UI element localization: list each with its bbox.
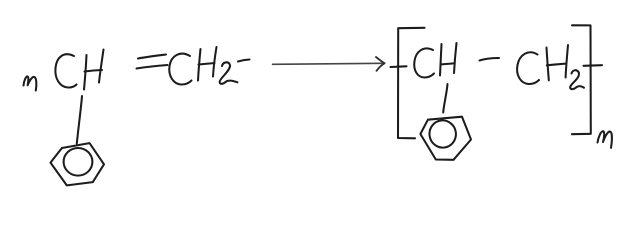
double bond = [137, 55, 168, 69]
subscript 2 of left CH2 [220, 62, 238, 83]
benzene inner circle (right) [428, 119, 458, 150]
bond dash between CH and CH2 [480, 58, 500, 61]
bond dash after CH2 [238, 60, 250, 62]
left bracket of repeat unit [398, 28, 425, 139]
atom C of left CH [55, 54, 76, 87]
atom C of left =CH2 [169, 54, 191, 85]
bond dash through left bracket [391, 65, 407, 68]
bond dash through right bracket [584, 64, 603, 67]
benzene hexagon (right) [420, 117, 471, 160]
right bracket of repeat unit [572, 25, 591, 134]
subscript n (right) [598, 131, 612, 148]
benzene hexagon (left) [51, 143, 105, 185]
atom H of left CH [84, 50, 104, 90]
benzene inner circle (left) [64, 148, 93, 176]
atom H of product CH [440, 43, 457, 76]
single bond from product CH to ring [443, 84, 447, 113]
atom H of left =CH2 [198, 47, 217, 81]
reaction arrow [273, 57, 385, 71]
atom C of product CH [414, 48, 434, 77]
coefficient n (left) [24, 76, 37, 90]
subscript 2 of product CH2 [570, 70, 584, 89]
single bond from left CH to ring [77, 96, 82, 144]
atom C of product CH2 [517, 52, 539, 84]
atom H of product CH2 [547, 45, 569, 80]
